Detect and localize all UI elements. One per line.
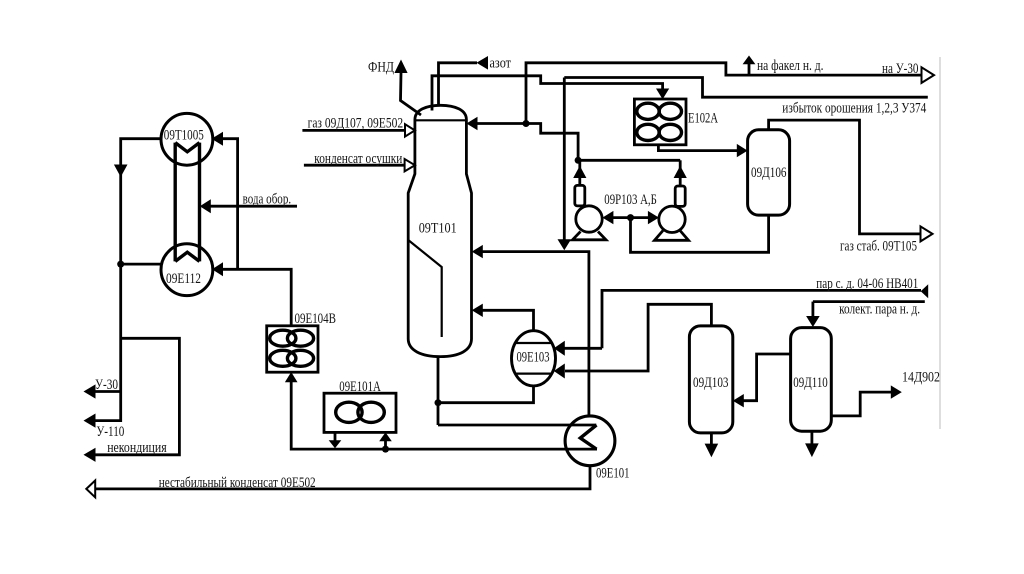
svg-text:ФНД: ФНД (368, 60, 394, 76)
svg-text:09Е112: 09Е112 (166, 271, 201, 287)
svg-text:азот: азот (490, 56, 512, 72)
svg-text:газ 09Д107, 09Е502: газ 09Д107, 09Е502 (308, 115, 404, 131)
svg-text:У-110: У-110 (96, 424, 124, 440)
svg-text:вода обор.: вода обор. (243, 192, 292, 208)
svg-text:09Д103: 09Д103 (693, 375, 729, 391)
svg-text:09Е104В: 09Е104В (295, 311, 337, 327)
svg-text:У-30: У-30 (95, 377, 118, 393)
svg-text:на У-30: на У-30 (882, 61, 919, 77)
svg-text:09Р103 А,Б: 09Р103 А,Б (604, 192, 657, 208)
svg-text:избыток орошения 1,2,3 У374: избыток орошения 1,2,3 У374 (782, 101, 926, 117)
svg-text:09Е101А: 09Е101А (339, 379, 381, 395)
svg-text:нестабильный конденсат 09Е502: нестабильный конденсат 09Е502 (159, 475, 316, 491)
svg-text:колект. пара н. д.: колект. пара н. д. (839, 302, 920, 318)
svg-text:на факел н. д.: на факел н. д. (757, 58, 824, 74)
svg-text:09Е101: 09Е101 (596, 466, 630, 482)
svg-text:пар с. д. 04-06 НВ401: пар с. д. 04-06 НВ401 (816, 276, 918, 292)
svg-text:09Д106: 09Д106 (751, 165, 787, 181)
svg-text:09Т1005: 09Т1005 (164, 127, 204, 143)
svg-text:газ стаб. 09Т105: газ стаб. 09Т105 (840, 239, 917, 255)
svg-text:14Д902: 14Д902 (902, 370, 940, 386)
svg-text:09Д110: 09Д110 (793, 375, 828, 391)
svg-text:09Е103: 09Е103 (517, 350, 550, 366)
svg-text:некондиция: некондиция (107, 440, 167, 456)
svg-text:конденсат осушки: конденсат осушки (314, 151, 402, 167)
svg-text:09Т101: 09Т101 (419, 221, 457, 237)
svg-text:Е102А: Е102А (688, 111, 718, 127)
